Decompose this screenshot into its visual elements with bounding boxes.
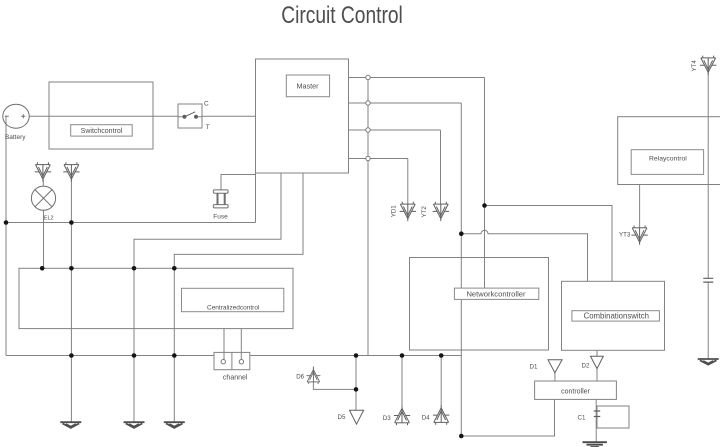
switch S contacts: [178, 104, 202, 128]
horn symbol top-left 1: [35, 162, 51, 181]
junction box top 4: [172, 266, 177, 271]
battery B1: [3, 104, 29, 128]
svg-text:Circuit Control: Circuit Control: [281, 1, 403, 29]
horn up D6: [306, 367, 320, 383]
horn YT2: [433, 202, 449, 221]
horn YT4: [700, 56, 716, 75]
svg-text:EL2: EL2: [44, 216, 54, 222]
junction bus D4: [439, 353, 444, 358]
wire dot205 to combinationswitch: [485, 206, 613, 282]
svg-text:Master: Master: [297, 82, 320, 91]
box Switchcontrol: [49, 82, 153, 149]
channel contact right: [239, 360, 243, 364]
svg-text:Relaycontrol: Relaycontrol: [649, 155, 687, 162]
junction bus D5: [354, 353, 359, 358]
box channel: [214, 352, 250, 369]
svg-text:Fuse: Fuse: [213, 214, 228, 221]
junction box top 3: [132, 266, 137, 271]
wire fuse top lead: [221, 175, 256, 191]
wire channel stub left: [223, 329, 225, 360]
label plate Switchcontrol: [71, 125, 133, 136]
wire lamp stem down: [43, 210, 45, 268]
junction D6 D5: [354, 387, 359, 392]
svg-text:controller: controller: [561, 388, 590, 395]
ground 2: [124, 422, 145, 428]
fuse FU: [213, 190, 228, 208]
wire master bottom A: [134, 173, 281, 422]
wire D6 base lead: [313, 382, 356, 390]
wire switch to master: [202, 115, 256, 117]
svg-text:T: T: [206, 124, 210, 131]
wire horn2 stem down to ground: [70, 180, 72, 422]
svg-text:YT4: YT4: [691, 60, 698, 72]
label plate Combinationswitch: [572, 311, 660, 321]
junction bus 3: [172, 353, 177, 358]
junction horn2 rail: [69, 220, 74, 225]
wire YT4 rail through relaycontrol to capacitor: [707, 74, 709, 279]
node 4: [366, 156, 370, 160]
svg-text:D2: D2: [582, 362, 590, 369]
wire node4 lead: [349, 158, 408, 160]
svg-text:D3: D3: [383, 415, 391, 422]
svg-text:D4: D4: [422, 414, 430, 421]
diode triangle D2: [591, 356, 604, 368]
wire dot233 to combinationswitch with hop: [461, 230, 587, 281]
box Master: [256, 59, 349, 173]
svg-text:Centralizedcontrol: Centralizedcontrol: [207, 305, 260, 312]
svg-text:YT3: YT3: [619, 232, 631, 239]
box controller: [535, 381, 617, 399]
wire controller to C1 ground: [595, 399, 597, 441]
box C1 side rectangle: [597, 406, 629, 428]
svg-text:Switchcontrol: Switchcontrol: [81, 128, 123, 135]
wire bus left segment: [6, 355, 214, 357]
wire master corner drop x=255.5: [255, 173, 257, 223]
wire node1 drop x=484.5: [484, 78, 486, 290]
junction node1 drop: [482, 203, 487, 208]
svg-text:Battery: Battery: [5, 134, 26, 141]
box Centralizedcontrol: [19, 268, 293, 328]
wire node3 drop to YT2: [440, 130, 442, 204]
box Relaycontrol: [618, 117, 720, 185]
channel contact left: [221, 360, 225, 364]
ground earth C1: [583, 442, 607, 447]
box Combinationswitch: [562, 281, 665, 350]
wire D1 stem to controller: [554, 373, 556, 381]
label plate Relaycontrol: [631, 150, 703, 175]
junction node2 drop: [459, 231, 464, 236]
label plate Centralizedcontrol: [182, 288, 284, 311]
node 3: [366, 128, 370, 132]
wire rail horizontal y=222.5: [6, 222, 256, 224]
horn YT3: [631, 226, 647, 245]
wire D2 stem from combinationswitch: [596, 350, 598, 381]
wire node4 drop to YD1: [407, 159, 409, 205]
ground 3: [164, 422, 185, 428]
junction box top 2: [69, 266, 74, 271]
svg-text:D6: D6: [296, 374, 304, 381]
junction bus 1: [69, 353, 74, 358]
junction rail top: [4, 220, 9, 225]
label plate Master: [286, 75, 329, 97]
horn YD1: [400, 202, 416, 221]
wire battery negative rail down: [5, 116, 7, 355]
horn up D4: [433, 405, 449, 424]
svg-text:Networkcontroller: Networkcontroller: [466, 289, 526, 298]
wire bottom dot to controller: [461, 399, 554, 436]
horn symbol top-left 2: [63, 162, 79, 181]
capacitor right rail: [703, 278, 713, 282]
diode triangle D1: [548, 360, 562, 373]
wire channel stub right: [240, 329, 242, 360]
svg-text:YT2: YT2: [421, 206, 428, 218]
box Networkcontroller: [410, 258, 549, 351]
svg-text:D1: D1: [530, 363, 538, 370]
node 2: [366, 101, 370, 105]
wire D4 stem: [440, 356, 442, 407]
junction bus D3: [400, 353, 405, 358]
wire D5 D6 junction vertical: [355, 356, 357, 411]
label plate Networkcontroller: [454, 288, 538, 299]
svg-text:C: C: [204, 101, 209, 108]
wire lamp top stem: [42, 180, 44, 187]
svg-text:C1: C1: [578, 414, 586, 421]
node 1: [366, 75, 370, 79]
wire node2 lead: [349, 102, 462, 104]
svg-text:channel: channel: [223, 375, 248, 382]
wire capacitor to right ground: [707, 282, 709, 359]
horn up D3: [394, 406, 410, 425]
wire node vertical bus x=368: [367, 80, 369, 356]
svg-text:Combinationswitch: Combinationswitch: [584, 312, 649, 321]
ground 1: [60, 422, 81, 428]
wire D6 apex stub: [312, 366, 314, 368]
wire battery to switch: [29, 115, 178, 117]
wire bus right segment: [250, 355, 461, 357]
wire relaycontrol to YT3: [639, 185, 641, 228]
junction box top 1: [40, 266, 45, 271]
capacitor C1: [594, 411, 600, 417]
svg-text:YD1: YD1: [390, 205, 397, 218]
lamp EL2: [31, 186, 55, 210]
wire node3 lead: [349, 129, 441, 131]
svg-text:D5: D5: [338, 414, 346, 421]
wire node1 lead: [349, 77, 485, 79]
channel divider: [231, 352, 233, 369]
junction bus 2: [132, 353, 137, 358]
wire D3 stem: [401, 356, 403, 408]
ground right rail: [698, 359, 719, 365]
junction bottom controller: [459, 434, 464, 439]
wire node2 drop x=461.3: [460, 103, 462, 436]
wire master bottom B: [174, 173, 303, 422]
diode triangle D5: [350, 410, 364, 424]
